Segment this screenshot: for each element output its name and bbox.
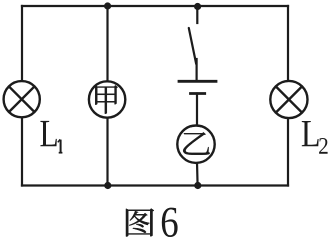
wire top rail <box>22 5 288 7</box>
label L1 letter L <box>40 121 56 146</box>
battery B1 short plate (negative) <box>191 92 205 95</box>
meter U-jia glyph jia <box>95 85 117 114</box>
wire meter-yi to bottom junction <box>196 162 199 186</box>
wire meter-jia branch <box>106 6 108 186</box>
battery B1 long plate (positive) <box>179 80 216 83</box>
wire bottom rail <box>22 184 288 186</box>
junction bottom-left <box>104 182 111 189</box>
label L2 subscript 2 <box>319 138 328 154</box>
switch S1 blade <box>189 28 196 64</box>
junction top-left <box>104 2 111 9</box>
lamp L2 <box>270 81 307 118</box>
label L1 subscript 1 <box>58 139 63 152</box>
caption numeral 6 <box>162 208 178 237</box>
wire switch stub from top junction <box>196 7 198 24</box>
caption glyph tu <box>126 209 154 237</box>
wire blade to battery <box>196 59 198 81</box>
lamp L1 <box>4 81 40 117</box>
meter U-yi circle <box>177 126 214 163</box>
label L2 letter L <box>302 121 319 146</box>
meter U-jia circle <box>89 81 125 117</box>
junction top-right <box>194 3 201 10</box>
wire battery to meter-yi <box>196 94 198 127</box>
wire right rail <box>287 6 289 186</box>
wire left rail <box>21 6 23 186</box>
meter U-yi glyph yi <box>183 132 210 154</box>
junction bottom-right <box>194 182 201 189</box>
